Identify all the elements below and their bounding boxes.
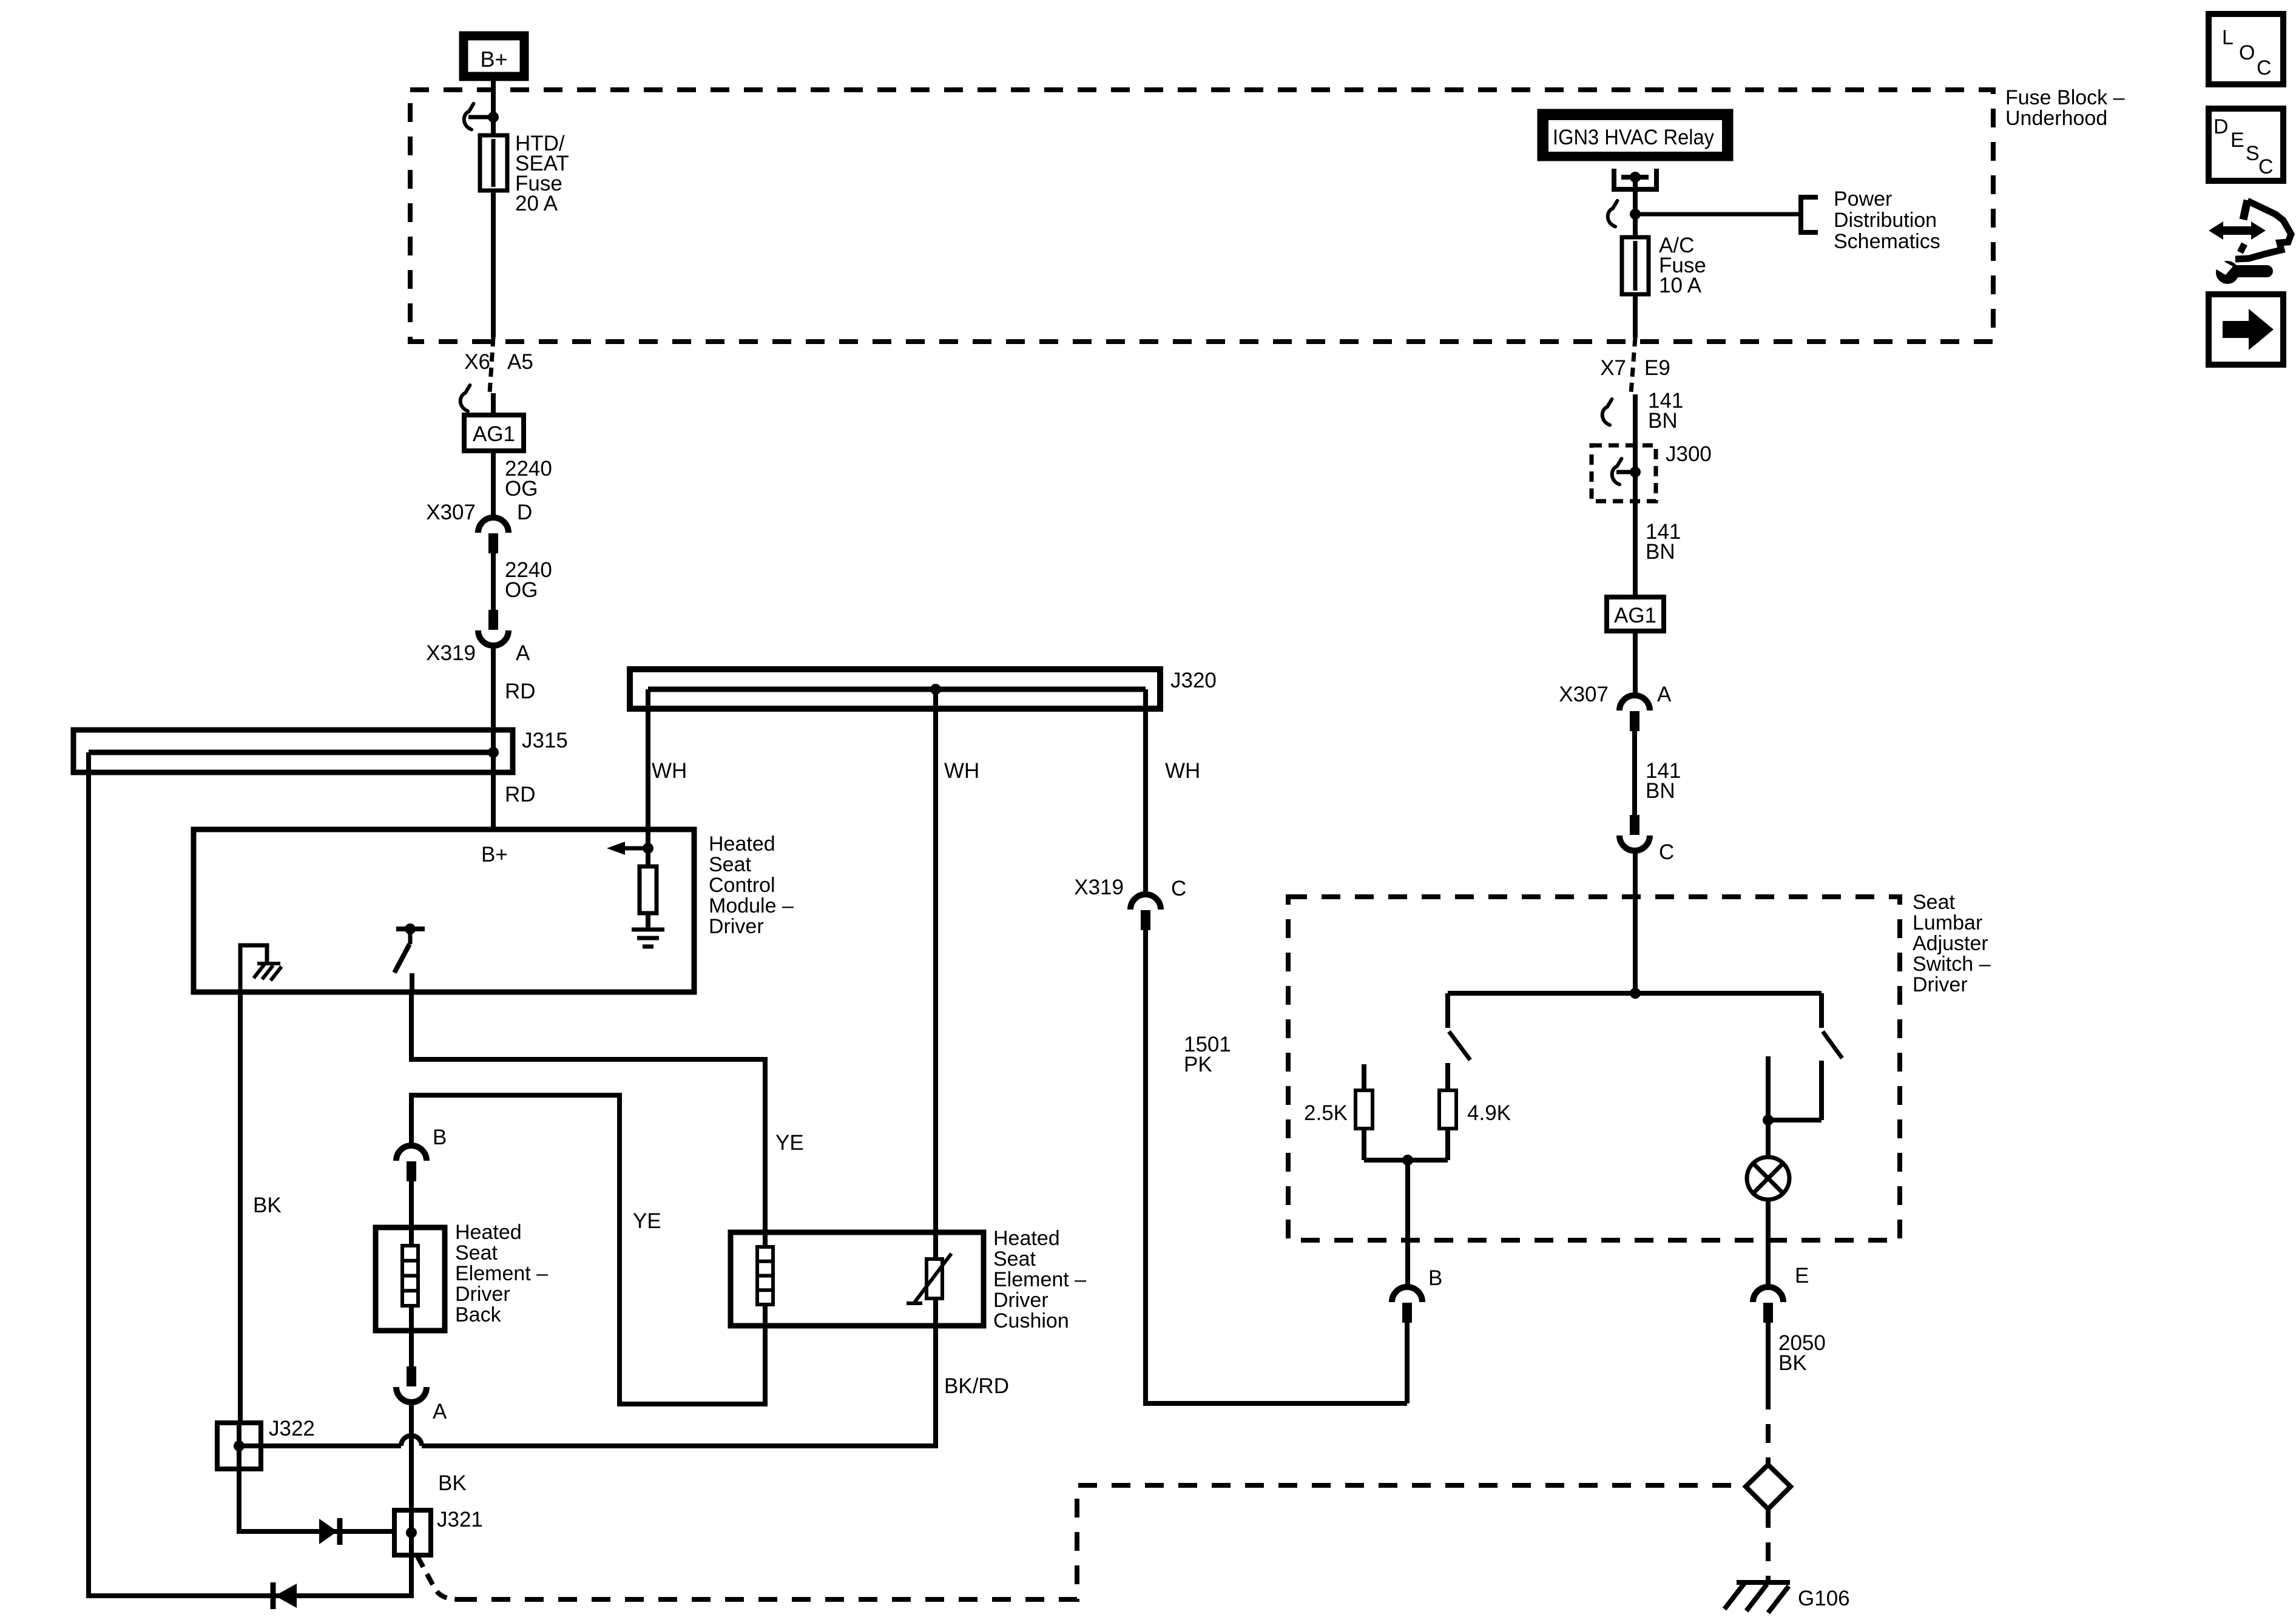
wire WH right J320 to X319-C: [1143, 689, 1148, 894]
svg-text:20 A: 20 A: [515, 192, 558, 215]
power node B+: [464, 36, 524, 76]
svg-text:Switch –: Switch –: [1913, 953, 1991, 976]
resistor junction to B: [1364, 1158, 1448, 1163]
wire B+ to fuse: [491, 81, 496, 135]
inline marker on bottom wire: [271, 1582, 276, 1609]
in-line connector A element back: [407, 1366, 416, 1386]
inline marker J322-J321: [319, 1519, 337, 1544]
svg-text:J321: J321: [437, 1508, 483, 1531]
svg-text:2.5K: 2.5K: [1304, 1101, 1348, 1125]
wire fuse to X6/A5: [491, 191, 496, 337]
terminal clip at fuse block entry: [464, 104, 474, 130]
wire J300 to AG1: [1633, 501, 1638, 597]
wire J315 left end down to bottom rail: [89, 752, 414, 1596]
svg-text:B+: B+: [480, 47, 507, 72]
splice J322: [217, 1423, 261, 1469]
svg-text:BK: BK: [1778, 1351, 1807, 1375]
svg-text:A: A: [1657, 683, 1672, 706]
svg-text:Driver: Driver: [1913, 973, 1968, 996]
svg-text:Seat: Seat: [709, 853, 751, 876]
svg-text:Heated: Heated: [455, 1221, 522, 1244]
svg-text:Control: Control: [709, 874, 775, 897]
svg-text:Driver: Driver: [993, 1289, 1048, 1312]
svg-text:BK/RD: BK/RD: [944, 1374, 1009, 1398]
in-line connector X307 terminal A right: [1619, 695, 1650, 711]
svg-text:BK: BK: [438, 1471, 467, 1495]
svg-text:J320: J320: [1170, 669, 1217, 692]
svg-text:Power: Power: [1834, 187, 1892, 211]
svg-text:YE: YE: [775, 1131, 804, 1155]
svg-text:RD: RD: [505, 783, 536, 806]
branch junction to power distribution: [1608, 201, 1618, 227]
heated seat control module - driver box: [194, 829, 694, 992]
svg-text:4.9K: 4.9K: [1467, 1101, 1511, 1125]
wire BK/RD thermistor to J322 splice: [422, 1298, 936, 1446]
left switch of lumbar: [1445, 993, 1450, 1028]
resistor 4.9K: [1439, 1090, 1456, 1129]
module internal chassis ground left: [240, 945, 267, 992]
svg-text:A5: A5: [507, 350, 533, 374]
seat lumbar adjuster switch dashed box: [1288, 897, 1900, 1240]
svg-text:Fuse Block –: Fuse Block –: [2005, 86, 2125, 109]
svg-text:J315: J315: [522, 729, 568, 752]
wire 1501 PK to lumbar switch B: [1146, 930, 1407, 1403]
right switch of lumbar: [1819, 993, 1824, 1028]
svg-text:IGN3 HVAC Relay: IGN3 HVAC Relay: [1553, 126, 1714, 149]
svg-text:E: E: [1795, 1264, 1809, 1288]
svg-text:Module –: Module –: [709, 894, 794, 917]
svg-text:Heated: Heated: [993, 1227, 1060, 1250]
module internal switch: [396, 927, 425, 931]
svg-text:Distribution: Distribution: [1834, 209, 1937, 232]
thermistor symbol: [927, 1259, 942, 1298]
heating element symbol back: [402, 1246, 418, 1306]
resistor 2.5K with stub: [1362, 1064, 1366, 1090]
module internal resistor: [640, 866, 657, 913]
svg-text:WH: WH: [944, 759, 979, 783]
icon DESC box: [2209, 109, 2283, 181]
svg-text:AG1: AG1: [473, 422, 515, 446]
svg-text:X307: X307: [1559, 683, 1609, 706]
svg-text:WH: WH: [1165, 759, 1200, 783]
splice pack J315: [73, 730, 513, 772]
svg-text:C: C: [2258, 155, 2274, 178]
svg-text:Seat: Seat: [993, 1247, 1036, 1271]
wire relay to branch: [1633, 177, 1638, 237]
svg-text:BN: BN: [1646, 779, 1675, 803]
svg-text:X6: X6: [464, 350, 490, 374]
heated seat element - driver back box: [376, 1227, 445, 1331]
heating element symbol cushion: [757, 1247, 773, 1305]
svg-text:A: A: [433, 1400, 447, 1423]
svg-text:Driver: Driver: [709, 915, 764, 938]
svg-text:J322: J322: [269, 1417, 315, 1440]
wire BK module ground to J322: [238, 992, 243, 1423]
svg-text:E: E: [2230, 129, 2244, 152]
svg-text:C: C: [2257, 56, 2272, 79]
module internal: WH input junction with arrow: [643, 843, 653, 854]
ground distribution diamond: [1746, 1465, 1791, 1509]
wire AG1 to X307-A: [1633, 631, 1638, 695]
svg-text:X319: X319: [426, 641, 476, 665]
wire J322 to J321: [239, 1469, 394, 1531]
svg-text:B: B: [1428, 1266, 1442, 1290]
connector AG1 left: [464, 415, 524, 451]
svg-text:WH: WH: [652, 759, 687, 783]
svg-text:Adjuster: Adjuster: [1913, 932, 1988, 955]
in-line connector E lumbar: [1753, 1287, 1783, 1302]
wire WH middle J320 to thermistor: [933, 689, 938, 1259]
wire YE module switch to cushion element: [411, 992, 765, 1247]
svg-text:YE: YE: [633, 1209, 661, 1233]
svg-text:Driver: Driver: [455, 1283, 510, 1306]
wire J315 to module B+: [491, 752, 496, 829]
wire C input junction: [1633, 851, 1638, 993]
svg-text:Heated: Heated: [709, 832, 775, 856]
relay socket terminal cup: [1612, 169, 1616, 192]
in-line connector B element back: [396, 1146, 427, 1161]
wire to AG1: [491, 393, 496, 419]
wire WH left J320 to module: [646, 689, 650, 829]
wire X307-D to X319-A: [491, 553, 496, 610]
splice J321: [394, 1510, 431, 1555]
svg-text:OG: OG: [505, 578, 538, 602]
svg-text:10 A: 10 A: [1659, 274, 1702, 297]
svg-text:BN: BN: [1646, 540, 1675, 564]
wire to J300: [1633, 394, 1638, 445]
svg-text:X7: X7: [1600, 356, 1626, 380]
wire element back to connector A: [409, 1306, 414, 1367]
module internal earth ground: [646, 913, 650, 930]
svg-text:Seat: Seat: [1913, 891, 1955, 914]
heated seat element - driver cushion box: [731, 1232, 984, 1326]
in-line connector lumbar pin C: [1630, 815, 1639, 835]
wire B to element back box: [409, 1181, 414, 1246]
svg-text:B+: B+: [481, 843, 508, 866]
svg-text:D: D: [2213, 115, 2229, 138]
wire YE element back to cushion element return: [411, 1095, 765, 1404]
svg-text:A: A: [516, 641, 530, 665]
icon arrow box: [2209, 294, 2283, 365]
svg-text:C: C: [1171, 877, 1186, 900]
svg-text:C: C: [1659, 840, 1674, 864]
fuse block - underhood dashed box: [410, 90, 1993, 342]
wire X307-A to C: [1632, 731, 1637, 815]
connector pass-through X6/A5: [490, 337, 493, 393]
wire 2050 BK to ground: [1766, 1322, 1771, 1391]
svg-text:BK: BK: [253, 1193, 282, 1217]
connector AG1 right: [1607, 597, 1664, 631]
wire hop over BK wire: [401, 1436, 422, 1446]
svg-text:Back: Back: [455, 1303, 502, 1326]
svg-text:Schematics: Schematics: [1834, 230, 1940, 253]
svg-text:Cushion: Cushion: [993, 1309, 1069, 1332]
svg-text:E9: E9: [1644, 356, 1670, 380]
svg-text:Element –: Element –: [455, 1262, 548, 1285]
icon LOC box: [2209, 14, 2283, 84]
dashed wire J321 to ground diamond: [417, 1556, 458, 1599]
ground G106: [1737, 1580, 1790, 1585]
wire X319-A to J315: [491, 646, 496, 750]
fuse HTD/SEAT 20A: [480, 135, 507, 191]
connector pass-through X7/E9: [1631, 337, 1635, 393]
reference bracket power distribution: [1801, 197, 1818, 232]
wire fuse to X7/E9: [1633, 294, 1638, 337]
relay IGN3 HVAC: [1542, 113, 1729, 157]
svg-text:Underhood: Underhood: [2005, 107, 2107, 130]
indicator lamp: [1766, 1120, 1771, 1157]
icon hand with wrench: [2243, 200, 2247, 220]
junction dot: [488, 112, 499, 123]
svg-text:Element –: Element –: [993, 1268, 1086, 1291]
in-line connector B lumbar: [1392, 1287, 1422, 1302]
svg-text:PK: PK: [1184, 1053, 1212, 1076]
svg-text:Lumbar: Lumbar: [1913, 911, 1982, 934]
wire BK connector A to J321: [409, 1402, 414, 1596]
svg-text:J300: J300: [1666, 442, 1712, 466]
svg-text:AG1: AG1: [1614, 604, 1656, 627]
svg-text:B: B: [433, 1126, 447, 1149]
wire AG1 to X307: [491, 451, 496, 518]
svg-text:L: L: [2222, 26, 2234, 49]
svg-text:O: O: [2239, 41, 2255, 64]
svg-text:S: S: [2246, 142, 2260, 165]
dashed ground run to G106: [1766, 1391, 1771, 1465]
svg-text:X307: X307: [426, 501, 476, 524]
fuse A/C 10A: [1622, 237, 1649, 294]
svg-text:RD: RD: [505, 680, 536, 703]
svg-text:OG: OG: [505, 477, 538, 501]
in-line connector X319 terminal C: [1130, 894, 1161, 910]
splice J300 dashed box: [1592, 445, 1656, 501]
splice pack J320: [630, 669, 1160, 709]
svg-text:G106: G106: [1798, 1587, 1850, 1610]
svg-text:X319: X319: [1074, 876, 1124, 899]
svg-text:Seat: Seat: [455, 1241, 498, 1264]
svg-text:D: D: [517, 501, 532, 524]
in-line connector X319 terminal A: [488, 610, 498, 630]
in-line connector X307 terminal D: [478, 518, 508, 533]
lamp contact branch: [1766, 1056, 1771, 1120]
lumbar feed rail: [1448, 991, 1822, 996]
svg-text:BN: BN: [1648, 409, 1678, 433]
